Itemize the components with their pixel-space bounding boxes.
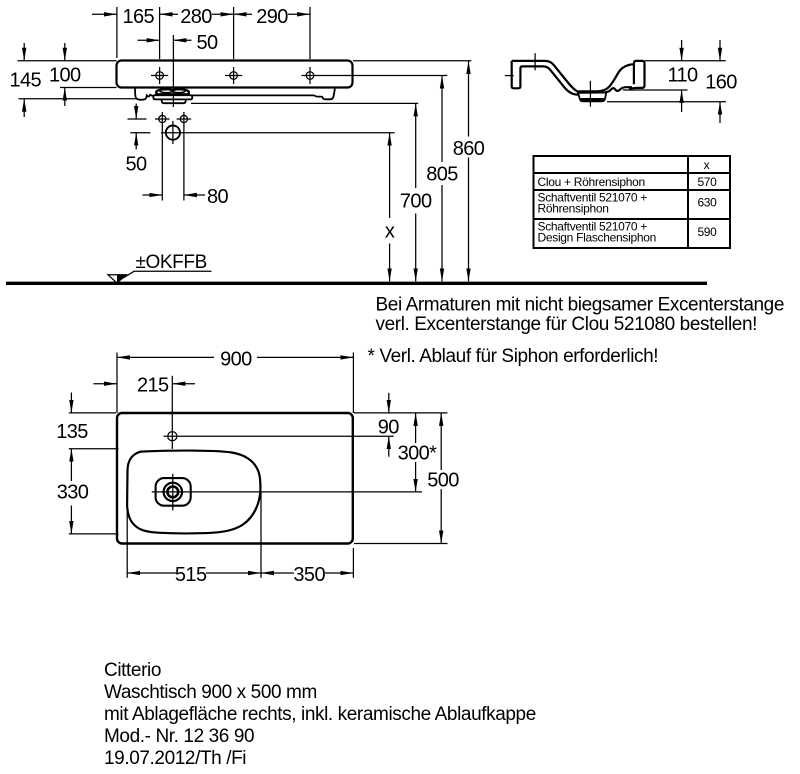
tap hole 3 front xyxy=(306,67,314,84)
wire dim 900 left xyxy=(117,356,214,358)
svg-text:805: 805 xyxy=(426,164,458,186)
wire drain centerline to 300 dim xyxy=(152,491,422,493)
wire dim arrow 215 left xyxy=(94,383,118,385)
SECTION: dim 80 xyxy=(143,126,206,201)
wire dim 515 left xyxy=(127,572,176,574)
wire extension plan right up xyxy=(352,353,354,414)
wire dim arrow 135 bottom xyxy=(70,449,72,481)
svg-text:x: x xyxy=(385,221,395,243)
wire dim arrow 90 top xyxy=(388,393,390,413)
wire extension line tap hole 2 xyxy=(233,7,235,59)
wire dim 805 upper xyxy=(441,76,443,163)
side view trap bottom dark band xyxy=(581,98,604,102)
svg-text:590: 590 xyxy=(697,225,717,239)
svg-text:500: 500 xyxy=(427,470,459,492)
svg-text:50: 50 xyxy=(196,32,218,54)
wire extension basin top to 860 xyxy=(353,60,471,62)
table column divider xyxy=(687,156,689,248)
wire dim 500 upper xyxy=(440,413,442,470)
wire dim arrow 160 top xyxy=(719,40,721,61)
wire tick line fixing holes level xyxy=(128,118,147,120)
floor ground line xyxy=(6,282,707,285)
fixing hole right front xyxy=(177,112,192,126)
svg-text:verl. Excenterstange für Clou: verl. Excenterstange für Clou 521080 bes… xyxy=(376,314,758,335)
wire dim arrow 165 right xyxy=(160,13,178,15)
wire dim 700 upper xyxy=(415,103,417,188)
svg-text:80: 80 xyxy=(207,186,229,208)
level mark leader line xyxy=(122,271,212,279)
wire dim 300 upper xyxy=(415,413,417,443)
wire side view trap centerline xyxy=(589,81,591,107)
wire dim arrow 50v top xyxy=(135,104,137,120)
svg-text:x: x xyxy=(704,158,710,172)
table row line 3 xyxy=(534,218,731,220)
wire dim arrow 80 left xyxy=(143,194,163,196)
wire extension line basin left edge xyxy=(116,7,118,58)
svg-text:900: 900 xyxy=(220,348,252,370)
wire dim line 290 xyxy=(288,13,310,15)
wire dim arrow 80 right xyxy=(184,194,205,196)
wire dim arrow 50 right xyxy=(173,39,191,41)
drain valve cover plate front xyxy=(156,89,189,94)
wire dim 300 lower xyxy=(415,462,417,492)
wire dim arrow 145 top xyxy=(23,43,25,61)
wire dim arrow 215 right xyxy=(172,383,195,385)
wire extension trap bottom to 700 xyxy=(191,102,418,104)
svg-text:100: 100 xyxy=(49,65,81,87)
wire dim x upper xyxy=(389,133,391,218)
tap hole 2 front xyxy=(225,67,242,84)
wire extension fixing hole left down xyxy=(161,126,163,201)
wire side view tap hole tick horizontal xyxy=(527,60,544,62)
wire dim arrow 135 top xyxy=(70,393,72,413)
fixing hole left front xyxy=(155,112,170,126)
side view rear wall hook outline xyxy=(512,61,579,95)
wire extension plan top left xyxy=(69,412,116,414)
svg-text:50: 50 xyxy=(125,153,147,175)
wire drain centerline left segment xyxy=(130,132,150,134)
wire dim 500 lower xyxy=(440,489,442,544)
side view shelf right edge xyxy=(629,61,645,89)
SECTION: table of x values xyxy=(534,156,731,248)
SECTION: plan dims left 135/330 xyxy=(69,393,119,534)
wire dim arrow 110 bottom xyxy=(681,90,683,112)
SECTION: front view dimension row 165/280/290 xyxy=(92,7,310,59)
wire extension plan bottom right xyxy=(354,543,448,545)
side view bowl floor and right underside xyxy=(577,87,632,93)
wire dim 900 right xyxy=(257,356,353,358)
svg-text:330: 330 xyxy=(57,482,89,504)
wire dim 700 lower xyxy=(415,214,417,282)
svg-text:90: 90 xyxy=(378,417,400,439)
SECTION: plan dims right 90/300/500 xyxy=(354,393,448,544)
wire dim 330 lower xyxy=(70,506,72,534)
svg-text:Bei Armaturen mit nicht biegsa: Bei Armaturen mit nicht biegsamer Excent… xyxy=(376,294,785,315)
wire dim arrow 50v bottom xyxy=(135,133,137,150)
wire extension plan right down xyxy=(352,548,354,578)
svg-text:Clou + Röhrensiphon: Clou + Röhrensiphon xyxy=(538,175,645,189)
table header line xyxy=(534,172,731,174)
svg-text:110: 110 xyxy=(667,65,698,87)
side view drain trap outline xyxy=(578,92,606,101)
wire dim arrow 160 bottom xyxy=(719,102,721,123)
wire extension plan top right xyxy=(354,412,448,414)
tap hole 1 front xyxy=(151,67,168,84)
svg-text:Design Flaschensiphon: Design Flaschensiphon xyxy=(538,231,656,245)
wire extension side top edge xyxy=(645,60,726,62)
wire side view tap hole tick vertical xyxy=(534,53,536,70)
left foot under basin xyxy=(135,89,154,100)
svg-text:Mod.- Nr. 12 36 90: Mod.- Nr. 12 36 90 xyxy=(104,726,254,747)
wire extension side trap bottom xyxy=(607,101,726,103)
level mark triangle filled half xyxy=(117,275,126,283)
drain valve skirt front xyxy=(162,99,186,103)
svg-text:290: 290 xyxy=(256,6,288,28)
tap hole plan xyxy=(164,432,182,441)
svg-text:mit Ablagefläche rechts, inkl.: mit Ablagefläche rechts, inkl. keramisch… xyxy=(104,704,536,725)
svg-text:860: 860 xyxy=(453,138,485,160)
wire drain cap vertical tick xyxy=(172,474,174,511)
drain cap inner circle xyxy=(167,487,178,498)
wire extension basin bottom left xyxy=(60,87,117,89)
wire drain centerline xyxy=(172,35,174,107)
wire side view wall fixing tick xyxy=(505,75,514,77)
wire extension side underside xyxy=(623,89,688,91)
svg-text:280: 280 xyxy=(180,6,212,28)
svg-text:570: 570 xyxy=(697,175,717,189)
wire extension plan left up xyxy=(116,353,118,414)
drain cap outer circle xyxy=(164,483,182,501)
drain valve flange front xyxy=(153,95,192,99)
svg-text:* Verl. Ablauf für Siphon erfo: * Verl. Ablauf für Siphon erforderlich! xyxy=(368,346,659,367)
wire dim 350 left xyxy=(261,572,294,574)
svg-text:145: 145 xyxy=(10,70,42,92)
wire dim line 280 xyxy=(212,13,234,15)
wire extension bowl bottom left xyxy=(69,533,119,535)
wire extension underside left xyxy=(19,98,137,100)
svg-text:515: 515 xyxy=(175,564,207,586)
wire dim 805 lower xyxy=(441,185,443,281)
wire dim arrow 290 left xyxy=(234,13,252,15)
wire extension bowl right down xyxy=(260,491,262,578)
wire extension basin top left xyxy=(18,60,117,62)
svg-text:215: 215 xyxy=(137,375,169,397)
drain outlet circle front xyxy=(166,121,180,144)
wire dim 515 right xyxy=(206,572,261,574)
svg-text:350: 350 xyxy=(293,564,325,586)
basin bowl outline plan xyxy=(127,451,260,534)
svg-text:160: 160 xyxy=(705,72,737,94)
SECTION: plan dims bottom 515/350 xyxy=(127,491,353,578)
wire dim arrow 100 bottom xyxy=(64,88,66,107)
wire dim arrow 110 top xyxy=(681,40,683,61)
wire extension bowl top left xyxy=(69,448,119,450)
wire extension line tap hole 1 xyxy=(159,7,161,59)
SECTION: height dims right of front view xyxy=(191,61,471,282)
SECTION: left dims 145/100 xyxy=(18,43,137,117)
wire dim 860 lower xyxy=(468,158,470,282)
wire dim arrow 50 left xyxy=(138,39,160,41)
svg-text:±OKFFB: ±OKFFB xyxy=(136,252,207,273)
wire dim 860 upper xyxy=(468,61,470,137)
washbasin body front outline xyxy=(117,61,353,88)
wire dim arrow 90 bottom xyxy=(388,436,390,457)
svg-text:700: 700 xyxy=(400,191,432,213)
svg-text:165: 165 xyxy=(123,6,155,28)
table row line 2 xyxy=(534,189,731,191)
table outer border xyxy=(534,156,731,248)
wire dim 350 right xyxy=(325,572,353,574)
SECTION: dim 50 vertical xyxy=(128,104,147,150)
SECTION: dim row 50 (tap hole to drain) xyxy=(138,35,192,107)
svg-text:630: 630 xyxy=(697,196,717,210)
svg-text:Waschtisch 900 x 500 mm: Waschtisch 900 x 500 mm xyxy=(104,682,317,703)
washbasin plan outline xyxy=(117,413,353,544)
wire extension line tap hole 3 xyxy=(309,7,311,59)
ceramic drain cap plan xyxy=(156,478,191,506)
SECTION: plan dims top xyxy=(94,353,354,414)
wire dim arrow 100 top xyxy=(64,43,66,61)
wire extension bowl left down xyxy=(126,509,128,578)
wire extension tap hole line to 805 dim xyxy=(302,75,448,77)
svg-text:Röhrensiphon: Röhrensiphon xyxy=(538,202,609,216)
wire dim x lower xyxy=(389,244,391,282)
SECTION: side view dims 110/160 xyxy=(607,40,726,123)
wire drain centerline to x dim xyxy=(161,132,395,134)
side view inner floor line xyxy=(579,64,634,91)
wire tap hole centerline to 90 dim xyxy=(181,435,394,437)
wire dim arrow 165 left xyxy=(92,13,117,15)
svg-text:19.07.2012/Th /Fi: 19.07.2012/Th /Fi xyxy=(104,748,246,769)
svg-text:Citterio: Citterio xyxy=(104,660,161,681)
svg-text:135: 135 xyxy=(56,421,88,443)
wire tap hole extension vertical xyxy=(171,376,173,449)
wire extension fixing hole right down xyxy=(183,126,185,201)
wire dim arrow 145 bottom xyxy=(23,99,25,117)
level mark triangle outline xyxy=(108,275,126,283)
drain valve cover plate inner arcs xyxy=(160,91,186,93)
underside line and right foot xyxy=(192,89,335,100)
svg-text:300*: 300* xyxy=(398,443,438,465)
side view top edge and outer bowl wall xyxy=(512,61,581,93)
